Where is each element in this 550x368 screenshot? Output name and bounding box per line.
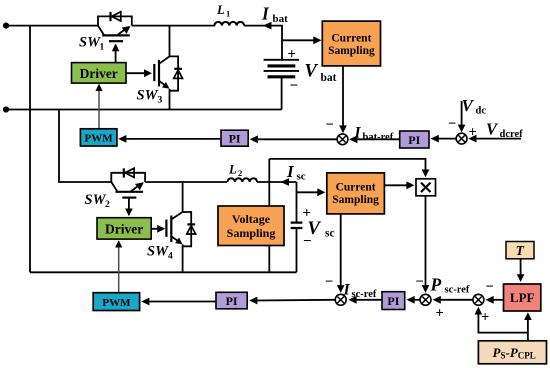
wire junction J2 to PI2	[436, 138, 456, 140]
wire Vdcref input	[474, 138, 521, 140]
wire top rail left segment	[6, 25, 98, 27]
node A terminal dot (top-left)	[3, 23, 9, 29]
transistor SW3 (IGBT, vertical)	[154, 26, 169, 110]
svg-text:2: 2	[238, 168, 242, 178]
svg-text:SW: SW	[137, 88, 159, 104]
svg-text:−: −	[325, 274, 333, 290]
capacitor Vsc plates	[291, 223, 303, 228]
diode of SW4 (antiparallel loop)	[183, 212, 196, 246]
svg-text:bat: bat	[321, 72, 337, 84]
svg-text:+: +	[481, 310, 489, 326]
arrowhead into LPF top	[517, 274, 525, 282]
svg-text:Current: Current	[336, 181, 376, 193]
wire junction Atop to PI1	[255, 138, 337, 140]
junction B (summing circle)	[420, 294, 431, 305]
svg-text:−: −	[416, 274, 424, 290]
arrowhead into junction Atop	[339, 125, 347, 133]
svg-text:−: −	[290, 78, 299, 94]
wire Driver1 to SW3 gate	[126, 72, 145, 74]
svg-text:SW: SW	[147, 244, 169, 260]
transistor SW2 (IGBT, horizontal)	[111, 182, 144, 216]
PWM1 box	[80, 129, 117, 146]
PI4 box	[216, 292, 247, 309]
wire lower bottom rail	[30, 271, 297, 273]
svg-text:PI: PI	[229, 132, 241, 146]
svg-text:L: L	[216, 3, 225, 17]
svg-text:V: V	[486, 120, 499, 139]
svg-text:sc: sc	[325, 228, 335, 240]
svg-text:sc-ref: sc-ref	[445, 285, 470, 296]
svg-text:PWM: PWM	[102, 297, 131, 309]
arrowhead into PWM1	[118, 135, 126, 143]
arrowhead into PI3 right	[407, 296, 415, 304]
svg-text:−: −	[486, 279, 494, 295]
Voltage Sampling box	[218, 206, 284, 246]
wire left drop x=59 to lower converter	[59, 110, 111, 183]
arrowhead Vdcref into J2	[468, 135, 476, 143]
arrowhead into PI1 right	[250, 135, 258, 143]
transistor SW4 (IGBT, vertical)	[166, 182, 182, 272]
arrowhead into multiplier left	[406, 181, 414, 189]
wire feedback branch to junction C	[478, 313, 528, 333]
Current Sampling box (lower)	[327, 173, 385, 214]
arrowhead into junction A right	[348, 296, 356, 304]
driver U1 box	[72, 63, 127, 84]
svg-text:bat-ref: bat-ref	[363, 132, 394, 143]
svg-text:P: P	[430, 275, 442, 295]
inductor L2	[228, 178, 258, 182]
arrowhead Ibat (pointing left on rail)	[263, 22, 272, 30]
diode of SW1 (antiparallel loop)	[98, 12, 132, 26]
diode of SW3 (antiparallel loop)	[170, 56, 183, 90]
svg-text:Driver: Driver	[105, 222, 143, 237]
PI2 box	[400, 131, 429, 148]
wire Voltage Sampling top lead	[268, 159, 270, 206]
arrowhead into junction C bottom	[475, 307, 483, 315]
wire LPF to junction C	[491, 299, 504, 301]
T box	[506, 242, 534, 259]
wire VS to multiplier (top feed)	[269, 159, 425, 171]
svg-text:V: V	[305, 62, 319, 82]
svg-text:SW: SW	[85, 192, 107, 208]
svg-text:dcref: dcref	[500, 129, 524, 140]
wire second rail	[6, 109, 282, 111]
Ps-Pcpl box	[478, 341, 546, 364]
PI3 box	[382, 292, 405, 310]
wire node to Current Sampling 2	[297, 191, 319, 193]
PWM2 box	[93, 293, 139, 311]
arrowhead into junction B	[422, 285, 430, 293]
svg-text:1: 1	[226, 9, 230, 19]
arrowhead into junction A	[337, 285, 345, 293]
svg-text:T: T	[516, 243, 525, 258]
svg-text:4: 4	[168, 252, 173, 262]
svg-text:PI: PI	[387, 294, 399, 308]
arrowhead into multiplier top	[422, 170, 430, 178]
arrowhead into PWM2	[141, 298, 149, 306]
svg-text:sc: sc	[297, 171, 306, 183]
junction J2 (summing circle)	[456, 133, 467, 144]
arrowhead into Driver2	[115, 240, 122, 247]
arrowhead into Current Sampling 2	[317, 188, 325, 196]
transistor SW1 (IGBT, horizontal)	[98, 26, 131, 63]
arrowhead into Driver1	[95, 84, 102, 91]
capacitor Vsc leads	[296, 182, 298, 272]
arrowhead Vdc into J2	[458, 125, 466, 133]
wire Vdc input	[461, 101, 463, 126]
wire PI3 to junction A	[352, 299, 382, 301]
arrowhead into LPF bottom	[524, 312, 532, 320]
wire left bus vertical x=30	[29, 26, 31, 273]
wire PI2 output to Ibat-ref arrow	[352, 138, 400, 140]
wire tap to current sampling	[282, 39, 315, 41]
wire junction A to PI4	[255, 299, 335, 302]
inductor L1	[215, 22, 245, 26]
arrowhead Isc (pointing left on rail)	[281, 178, 290, 186]
svg-text:LPF: LPF	[510, 290, 535, 305]
wire PI4 to PWM2	[147, 301, 216, 303]
multiplier box	[416, 179, 436, 196]
LPF box	[504, 284, 541, 311]
Current Sampling box (upper)	[322, 21, 380, 66]
wire junction B to PI3	[412, 299, 420, 301]
svg-text:L: L	[228, 163, 237, 177]
svg-text:V: V	[308, 219, 322, 239]
wire lower top rail right	[257, 181, 296, 183]
wire PWM2 to Driver2	[118, 247, 120, 293]
svg-text:SW: SW	[79, 35, 101, 51]
driver U2 box	[97, 218, 151, 239]
wire Voltage Sampling bottom lead	[268, 246, 270, 273]
arrowhead into PI2 right	[431, 135, 439, 143]
wire lower top rail middle	[145, 181, 227, 183]
arrowhead into SW4 gate	[157, 225, 165, 233]
arrowhead into junction B right	[433, 296, 441, 304]
arrowhead into SW3 gate	[144, 69, 152, 77]
svg-text:+: +	[288, 47, 297, 63]
svg-text:2: 2	[105, 200, 110, 210]
battery Vbat symbol	[264, 60, 299, 110]
svg-text:dc: dc	[476, 106, 487, 117]
svg-text:−: −	[326, 117, 334, 133]
svg-text:Driver: Driver	[80, 66, 118, 81]
wire CS2 output down to junction A	[340, 214, 342, 287]
PI1 box	[221, 130, 248, 146]
wire Ps-Pcpl up to LPF	[527, 319, 529, 341]
arrowhead into junction C right	[486, 296, 494, 304]
svg-text:Sampling: Sampling	[328, 45, 375, 57]
wire CS2 to multiplier	[384, 184, 408, 186]
svg-text:Sampling: Sampling	[227, 226, 276, 240]
svg-text:Sampling: Sampling	[332, 194, 379, 206]
svg-text:I: I	[261, 4, 270, 24]
wire Current Sampling 1 output down	[342, 66, 344, 127]
svg-text:I: I	[343, 282, 351, 299]
node B terminal dot (left, second rail)	[3, 106, 9, 112]
svg-text:I: I	[286, 162, 295, 181]
svg-text:PI: PI	[226, 294, 238, 308]
diode of SW2 (antiparallel loop)	[111, 168, 145, 182]
svg-text:3: 3	[158, 96, 163, 106]
svg-text:PWM: PWM	[85, 133, 114, 145]
svg-text:+: +	[436, 306, 444, 322]
wire T to LPF	[520, 259, 522, 276]
junction Atop (summing circle)	[337, 134, 348, 145]
arrowhead into Current Sampling 1	[313, 36, 321, 44]
junction A (summing circle)	[335, 294, 346, 305]
svg-text:bat: bat	[273, 13, 289, 25]
wire top rail middle segment	[132, 25, 215, 27]
svg-text:Voltage: Voltage	[232, 212, 271, 226]
svg-text:1: 1	[100, 43, 105, 53]
svg-text:−: −	[448, 116, 456, 132]
wire multiplier output down to junction B	[425, 196, 427, 287]
wire top rail right segment down to battery	[244, 26, 282, 60]
svg-text:PI: PI	[408, 133, 420, 147]
wire PWM1 to Driver1	[98, 90, 100, 129]
junction C (summing circle)	[473, 294, 484, 305]
arrowhead at junction Atop right	[349, 135, 357, 143]
wire Driver2 to SW4 gate	[151, 228, 158, 230]
wire PI1 to PWM1	[125, 138, 221, 140]
svg-text:Current: Current	[331, 32, 371, 44]
wire junction C to junction B	[438, 299, 473, 301]
svg-text:V: V	[462, 96, 475, 115]
arrowhead into PI4 right	[249, 297, 257, 305]
